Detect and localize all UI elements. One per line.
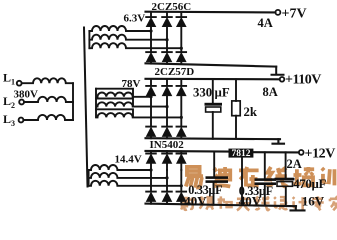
inductor primary winding P3	[24, 115, 73, 120]
node +12V terminal	[299, 150, 304, 155]
svg-text:L1: L1	[3, 71, 15, 87]
wire bridge3 col2	[166, 170, 168, 192]
ground chassis mark bridge3	[291, 206, 305, 210]
node +7V terminal	[275, 10, 280, 15]
node S1a junction	[149, 29, 152, 32]
svg-text:14.4V: 14.4V	[115, 154, 142, 166]
inductor secondary S1c	[89, 43, 181, 48]
wire secondary S1 bracket	[88, 31, 90, 48]
svg-text:µF: µF	[215, 86, 230, 100]
diode D12 bottom col3	[177, 127, 187, 139]
diode D4 bottom col1	[146, 52, 156, 64]
diode D6 bottom col3	[177, 52, 187, 64]
capacitor C3 0.33uF plates	[255, 178, 277, 185]
inductor secondary S2b	[96, 99, 167, 107]
svg-text:2CZ57D: 2CZ57D	[155, 66, 195, 78]
wire secondary S3 bracket	[88, 170, 90, 186]
diode D16 bottom col1	[146, 192, 156, 204]
wire primary wye	[72, 83, 74, 120]
node S2a junction	[149, 95, 152, 98]
svg-text:380V: 380V	[14, 89, 39, 101]
svg-text:40V: 40V	[184, 194, 207, 209]
node S1c junction	[180, 47, 183, 50]
diode D13 top col1	[146, 151, 156, 170]
wire regulator ground pin	[241, 158, 243, 205]
resistor R1 2k body	[232, 101, 240, 116]
node S3b junction	[165, 176, 168, 179]
svg-text:6.3V: 6.3V	[124, 13, 146, 25]
wire bridge2 col1	[150, 96, 152, 127]
svg-text:2k: 2k	[244, 105, 258, 119]
diode D15 top col3	[177, 151, 187, 170]
node L2 terminal	[19, 100, 24, 105]
node S2b junction	[165, 105, 168, 108]
wire bridge1 col3	[180, 27, 182, 53]
diode D5 bottom col2	[162, 52, 172, 64]
svg-text:+12V: +12V	[305, 147, 336, 162]
regulator U1 7812	[229, 149, 254, 160]
inductor secondary S1a	[89, 26, 151, 31]
node S1b junction	[165, 38, 168, 41]
diode D10 bottom col1	[146, 127, 156, 139]
transformer core	[84, 28, 88, 187]
wire bridge1 col2	[166, 27, 168, 53]
svg-text:IN5402: IN5402	[150, 139, 185, 151]
watermark line2	[181, 196, 337, 210]
capacitor C4 470uF wires	[285, 152, 287, 206]
capacitor C1 330uF bottom wire	[212, 112, 214, 139]
diode D11 bottom col2	[162, 127, 172, 139]
wire bridge3 positive bus to regulator	[146, 150, 229, 153]
node S2c junction	[180, 116, 183, 119]
diode D17 bottom col2	[162, 192, 172, 204]
diode D3 top col3	[177, 12, 187, 27]
wire bridge2 col3	[180, 96, 182, 127]
diode D14 top col2	[162, 151, 172, 170]
svg-text:8A: 8A	[263, 85, 278, 99]
inductor secondary S3a	[89, 165, 151, 170]
inductor secondary S2c	[96, 109, 181, 117]
wire bridge3 col1	[150, 170, 152, 192]
wire bridge1 col1	[150, 27, 152, 53]
svg-text:2A: 2A	[287, 157, 302, 171]
svg-text:470µF: 470µF	[293, 177, 326, 191]
wire bridge1 neg drop to +110V node	[272, 67, 284, 75]
node +110V terminal	[280, 77, 285, 82]
node L3 terminal	[19, 118, 24, 123]
capacitor C4 470uF plates	[275, 178, 295, 187]
watermark line1	[186, 167, 337, 188]
diode D9 top col3	[177, 79, 187, 96]
wire bridge1 negative bus	[146, 63, 277, 66]
svg-text:L3: L3	[3, 112, 15, 128]
diode D18 bottom col3	[177, 192, 187, 205]
capacitor C2 0.33uF input wires	[213, 152, 216, 205]
wire bridge2 positive bus	[146, 78, 280, 81]
diode D7 top col1	[146, 79, 156, 97]
inductor secondary S3c	[89, 181, 182, 186]
wire bridge2 col2	[166, 96, 168, 127]
svg-text:16V: 16V	[302, 194, 325, 209]
inductor secondary S3b	[89, 173, 167, 178]
wire secondary S2 bracket	[95, 89, 97, 118]
ground chassis mark bridge2	[273, 139, 285, 144]
wire bridge2 negative bus	[146, 138, 281, 139]
svg-text:4A: 4A	[258, 16, 273, 30]
inductor primary winding P1	[22, 78, 73, 83]
capacitor C1 330uF plates	[205, 103, 223, 112]
svg-text:+110V: +110V	[285, 73, 321, 88]
node S3a junction	[149, 168, 152, 171]
node S3c junction	[180, 184, 183, 187]
inductor secondary S1b	[89, 35, 167, 40]
diode D8 top col2	[162, 79, 172, 96]
inductor primary winding P2	[24, 97, 73, 102]
wire bridge3 col3	[180, 170, 182, 192]
svg-text:+7V: +7V	[282, 6, 307, 21]
capacitor C1 330uF top wire	[212, 79, 214, 102]
inductor secondary S2a	[96, 89, 151, 97]
wire bridge1 positive bus	[146, 11, 276, 14]
wire bridge3 negative bus	[146, 204, 297, 207]
node L1 terminal	[17, 81, 22, 86]
capacitor C2 0.33uF plates	[206, 176, 229, 183]
diode D2 top col2	[162, 12, 172, 27]
resistor R1 2k wires	[235, 79, 237, 139]
wire regulator output bus	[253, 151, 298, 153]
svg-text:330: 330	[193, 86, 212, 100]
diode D1 top col1	[146, 12, 156, 27]
capacitor C3 0.33uF output wires	[264, 152, 266, 205]
svg-text:40V: 40V	[239, 193, 262, 208]
